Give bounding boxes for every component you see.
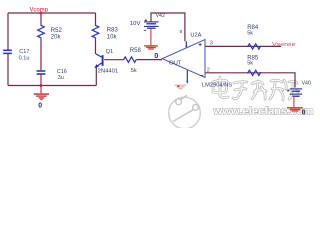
battery bars	[144, 21, 159, 23]
collector diagonal	[96, 54, 103, 58]
svg-text:0: 0	[302, 110, 306, 117]
svg-text:Vsense: Vsense	[272, 42, 296, 48]
svg-text:10V: 10V	[130, 21, 142, 27]
battery bars	[290, 88, 302, 90]
svg-text:2: 2	[207, 68, 210, 74]
watermark logo circle	[169, 95, 201, 129]
wire: R58 to op-amp output	[137, 59, 162, 61]
junction dot at bottom rail / C16 ground	[40, 84, 43, 87]
resistor R52	[38, 25, 45, 39]
svg-text:2N4401: 2N4401	[98, 68, 119, 74]
wire: bottom ground rail	[8, 85, 96, 87]
plus sign V40	[287, 90, 289, 92]
svg-text:3: 3	[210, 40, 213, 46]
emitter diagonal	[97, 62, 103, 66]
svg-text:5k: 5k	[247, 61, 253, 67]
wire: left vertical to C17	[7, 13, 9, 50]
wire: Vcomp top rail	[8, 12, 96, 14]
svg-text:R83: R83	[107, 27, 119, 33]
wire: C17 bottom to bottom rail	[7, 54, 9, 86]
capacitor C17	[3, 50, 12, 53]
op-amp U2A triangle	[162, 40, 205, 78]
wire: Q1 base to R58	[104, 59, 123, 61]
emitter arrow	[94, 64, 99, 68]
capacitor C16	[37, 71, 46, 74]
op-amp + marker	[199, 43, 202, 46]
dc source V40	[287, 80, 311, 96]
svg-text:8: 8	[180, 29, 183, 34]
junction dot at Vcomp/R52	[40, 12, 43, 15]
op-amp - marker	[200, 75, 203, 77]
wire: C16 to ground (crosses bottom rail)	[40, 75, 42, 89]
wire: Vcomp to R83	[95, 13, 97, 25]
svg-text:20k: 20k	[51, 34, 62, 40]
resistor R83	[92, 25, 99, 39]
ground 0 under V42	[144, 29, 158, 60]
op-amp V+ pin	[185, 41, 187, 46]
wire: R83 to Q1 collector	[95, 39, 97, 54]
dc source V42	[130, 13, 165, 31]
svg-text:V40: V40	[302, 80, 311, 86]
resistor R85	[247, 70, 261, 75]
wire: op-amp pin2 to V40	[205, 73, 295, 88]
base bar	[102, 55, 104, 66]
wire: R52 to C16	[40, 39, 42, 70]
minus sign	[144, 29, 146, 31]
svg-text:0: 0	[154, 53, 158, 60]
svg-text:Vcomp: Vcomp	[30, 7, 49, 14]
svg-text:R52: R52	[51, 28, 63, 34]
plus sign	[145, 19, 147, 21]
wire: Q1 emitter to bottom rail	[95, 67, 97, 86]
faint ground under V- pin	[175, 85, 187, 89]
svg-text:R58: R58	[130, 48, 142, 54]
ground 0 left	[34, 89, 49, 110]
dark speck near V- ground	[177, 85, 179, 87]
transistor Q1 2N4401	[96, 54, 103, 67]
svg-text:5k: 5k	[131, 68, 137, 74]
svg-text:0.1u: 0.1u	[19, 56, 30, 62]
svg-text:C17: C17	[19, 49, 29, 55]
svg-text:OUT: OUT	[169, 60, 182, 66]
svg-text:0: 0	[38, 102, 42, 109]
svg-text:U2A: U2A	[190, 33, 201, 39]
ground 0 under V40	[287, 97, 306, 117]
svg-text:LM2904/NS: LM2904/NS	[202, 82, 232, 88]
wire: Vcomp to R52	[40, 13, 42, 25]
svg-text:Q1: Q1	[106, 49, 113, 55]
wire: V42 to op-amp V+	[151, 13, 185, 41]
op-amp V- pin	[186, 70, 188, 81]
svg-text:10k: 10k	[107, 34, 118, 40]
resistor R84	[247, 44, 261, 49]
svg-text:3u: 3u	[58, 75, 64, 81]
svg-text:5k: 5k	[247, 31, 253, 37]
resistor R58	[123, 57, 137, 63]
wire: op-amp pin3 to Vsense	[205, 45, 281, 47]
watermark chinese calligraphy	[213, 77, 298, 100]
svg-text:V42: V42	[156, 13, 165, 19]
